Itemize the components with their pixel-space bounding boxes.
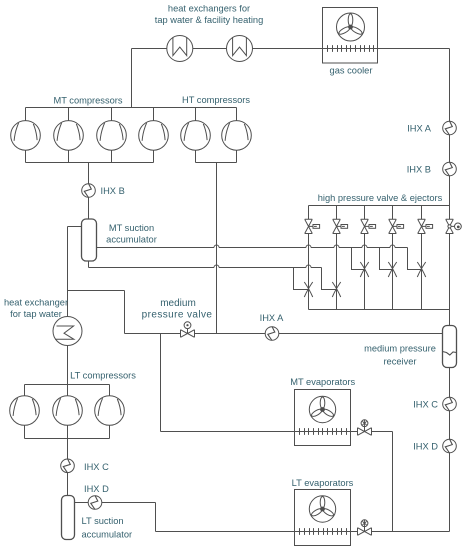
wire: receiver bottom liquid line through IHX C and D — [449, 368, 451, 532]
compressor Q8 LT — [53, 396, 83, 426]
wire: line A end feed to ejector suction valve XV5 — [408, 248, 422, 270]
svg-text:HT compressors: HT compressors — [182, 95, 250, 105]
wire: valve drops from manifold — [309, 206, 450, 220]
wire: flash gas branch to medium pressure valve — [68, 291, 125, 334]
svg-text:high pressure valve & ejectors: high pressure valve & ejectors — [318, 193, 443, 203]
heat exchanger HX2 tap water and facility heating — [227, 36, 253, 62]
svg-text:medium pressure: medium pressure — [364, 344, 436, 354]
svg-text:LT suction: LT suction — [82, 516, 124, 526]
IHX C circle left — [61, 459, 75, 473]
wire: accumulator left port to LT discharge line — [68, 226, 82, 228]
compressor Q4 MT — [139, 121, 169, 151]
wire: right vertical gas cooler to valve manifold — [449, 49, 451, 206]
wire: ejector outlet verticals to receiver bus — [309, 234, 450, 326]
wire: accumulator bottom line B with hops — [89, 261, 322, 268]
ejector E3 — [361, 219, 376, 233]
ejector E5 — [418, 219, 433, 233]
wire: discharge riser to heat exchangers — [131, 49, 133, 108]
IHX B circle on MT suction drop — [82, 184, 96, 198]
hop arcs on line B — [214, 265, 311, 268]
wire: MT evaporator branch riser — [372, 432, 393, 532]
ejector E4 — [389, 219, 404, 233]
svg-text:LT compressors: LT compressors — [70, 371, 136, 381]
svg-text:heat exchanger: heat exchanger — [4, 298, 68, 308]
medium pressure valve MPV — [181, 322, 195, 337]
svg-text:accumulator: accumulator — [82, 530, 133, 540]
gas cooler fan — [337, 13, 365, 41]
expansion valve XV3 — [360, 262, 368, 277]
compressor Q7 LT — [10, 396, 40, 426]
svg-text:gas cooler: gas cooler — [330, 66, 373, 76]
wire: liquid line to LT expansion valve — [372, 531, 450, 533]
wire: receiver bus — [309, 309, 450, 311]
svg-text:IHX A: IHX A — [407, 124, 432, 134]
wire: top header through heat exchangers and gas cooler — [132, 48, 450, 50]
LT evaporator expansion valve — [358, 520, 372, 536]
wire: compressor discharge bus — [26, 107, 237, 109]
gas cooler GC — [323, 8, 378, 64]
hop arcs on line A — [214, 245, 395, 248]
svg-text:pressure valve: pressure valve — [142, 310, 213, 321]
expansion valve XV5 — [417, 262, 425, 277]
IHX C circle right — [443, 397, 457, 411]
wire: HT compressor suction bus — [196, 162, 237, 164]
svg-text:medium: medium — [160, 298, 196, 309]
expansion valve XV1 — [304, 282, 312, 297]
svg-text:tap water & facility heating: tap water & facility heating — [155, 15, 264, 25]
ejector E2 — [333, 219, 348, 233]
high pressure valve HPV — [446, 219, 462, 233]
svg-text:IHX B: IHX B — [407, 165, 431, 175]
svg-text:IHX D: IHX D — [413, 442, 438, 452]
LT suction accumulator vessel — [62, 496, 75, 540]
LT evaporators unit — [156, 490, 358, 546]
wire: MT suction drop through IHX B — [88, 163, 90, 219]
wire: LT compressor suction bus — [25, 438, 110, 440]
heat exchanger HX1 tap water and facility heating — [167, 36, 193, 62]
compressor Q5 HT — [181, 121, 211, 151]
MT evaporator expansion valve — [358, 420, 372, 435]
wire: LT evaporator return through IHX D — [75, 503, 156, 532]
compressor Q6 HT — [222, 121, 252, 151]
svg-text:for tap water: for tap water — [10, 309, 62, 319]
svg-text:MT compressors: MT compressors — [53, 96, 122, 106]
wire: MT evaporator return riser — [160, 334, 162, 432]
svg-text:IHX D: IHX D — [84, 484, 109, 494]
IHX B circle on gas cooler line — [443, 162, 457, 176]
MT evaporators fan — [309, 396, 335, 422]
svg-text:MT evaporators: MT evaporators — [290, 377, 355, 387]
wire: accumulator vapor line A with hops — [97, 247, 408, 249]
IHX A circle on gas cooler line — [443, 121, 457, 135]
wire: HT suction drop to receiver flash line — [216, 163, 218, 334]
svg-text:receiver: receiver — [383, 357, 416, 367]
IHX A circle on medium pressure line — [265, 327, 279, 341]
MT suction accumulator vessel — [82, 219, 97, 261]
compressor Q9 LT — [95, 396, 125, 426]
expansion valve XV4 — [388, 262, 396, 277]
MT evaporators unit — [161, 390, 358, 446]
expansion valve XV2 — [332, 282, 340, 297]
ejector E1 — [305, 219, 320, 233]
wire: compressor stubs — [26, 108, 237, 163]
svg-text:IHX A: IHX A — [260, 313, 285, 323]
svg-text:IHX C: IHX C — [413, 400, 438, 410]
wire: LT compressor stubs — [25, 385, 110, 439]
wire: MT compressor suction bus — [26, 162, 154, 164]
wire: medium pressure line to receiver — [125, 333, 443, 335]
wire: line B branch feed to XV1 — [294, 268, 309, 290]
svg-text:LT evaporators: LT evaporators — [292, 478, 354, 488]
svg-text:MT suction: MT suction — [109, 223, 154, 233]
medium pressure receiver vessel — [443, 326, 457, 368]
compressor Q3 MT — [97, 121, 127, 151]
compressor Q1 MT — [11, 121, 41, 151]
compressor Q2 MT — [54, 121, 84, 151]
svg-text:accumulator: accumulator — [106, 235, 157, 245]
wire: LT compressor discharge bus — [25, 384, 110, 386]
wire: line B end feed to XV2 — [322, 268, 337, 290]
svg-text:heat exchangers for: heat exchangers for — [168, 4, 250, 14]
wire: high pressure valve manifold — [309, 205, 450, 207]
svg-text:IHX B: IHX B — [101, 186, 125, 196]
LT evaporators fan — [309, 496, 335, 522]
wire: line A branch feeds to XV3 XV4 — [352, 248, 393, 270]
svg-text:IHX C: IHX C — [84, 462, 109, 472]
heat exchanger for tap water HX3 — [53, 317, 82, 346]
wire: LT discharge vertical through tap water HX — [67, 227, 69, 385]
IHX D circle left — [88, 496, 102, 510]
wire: LT suction drop through IHX C — [67, 439, 69, 496]
IHX D circle right — [443, 439, 457, 453]
